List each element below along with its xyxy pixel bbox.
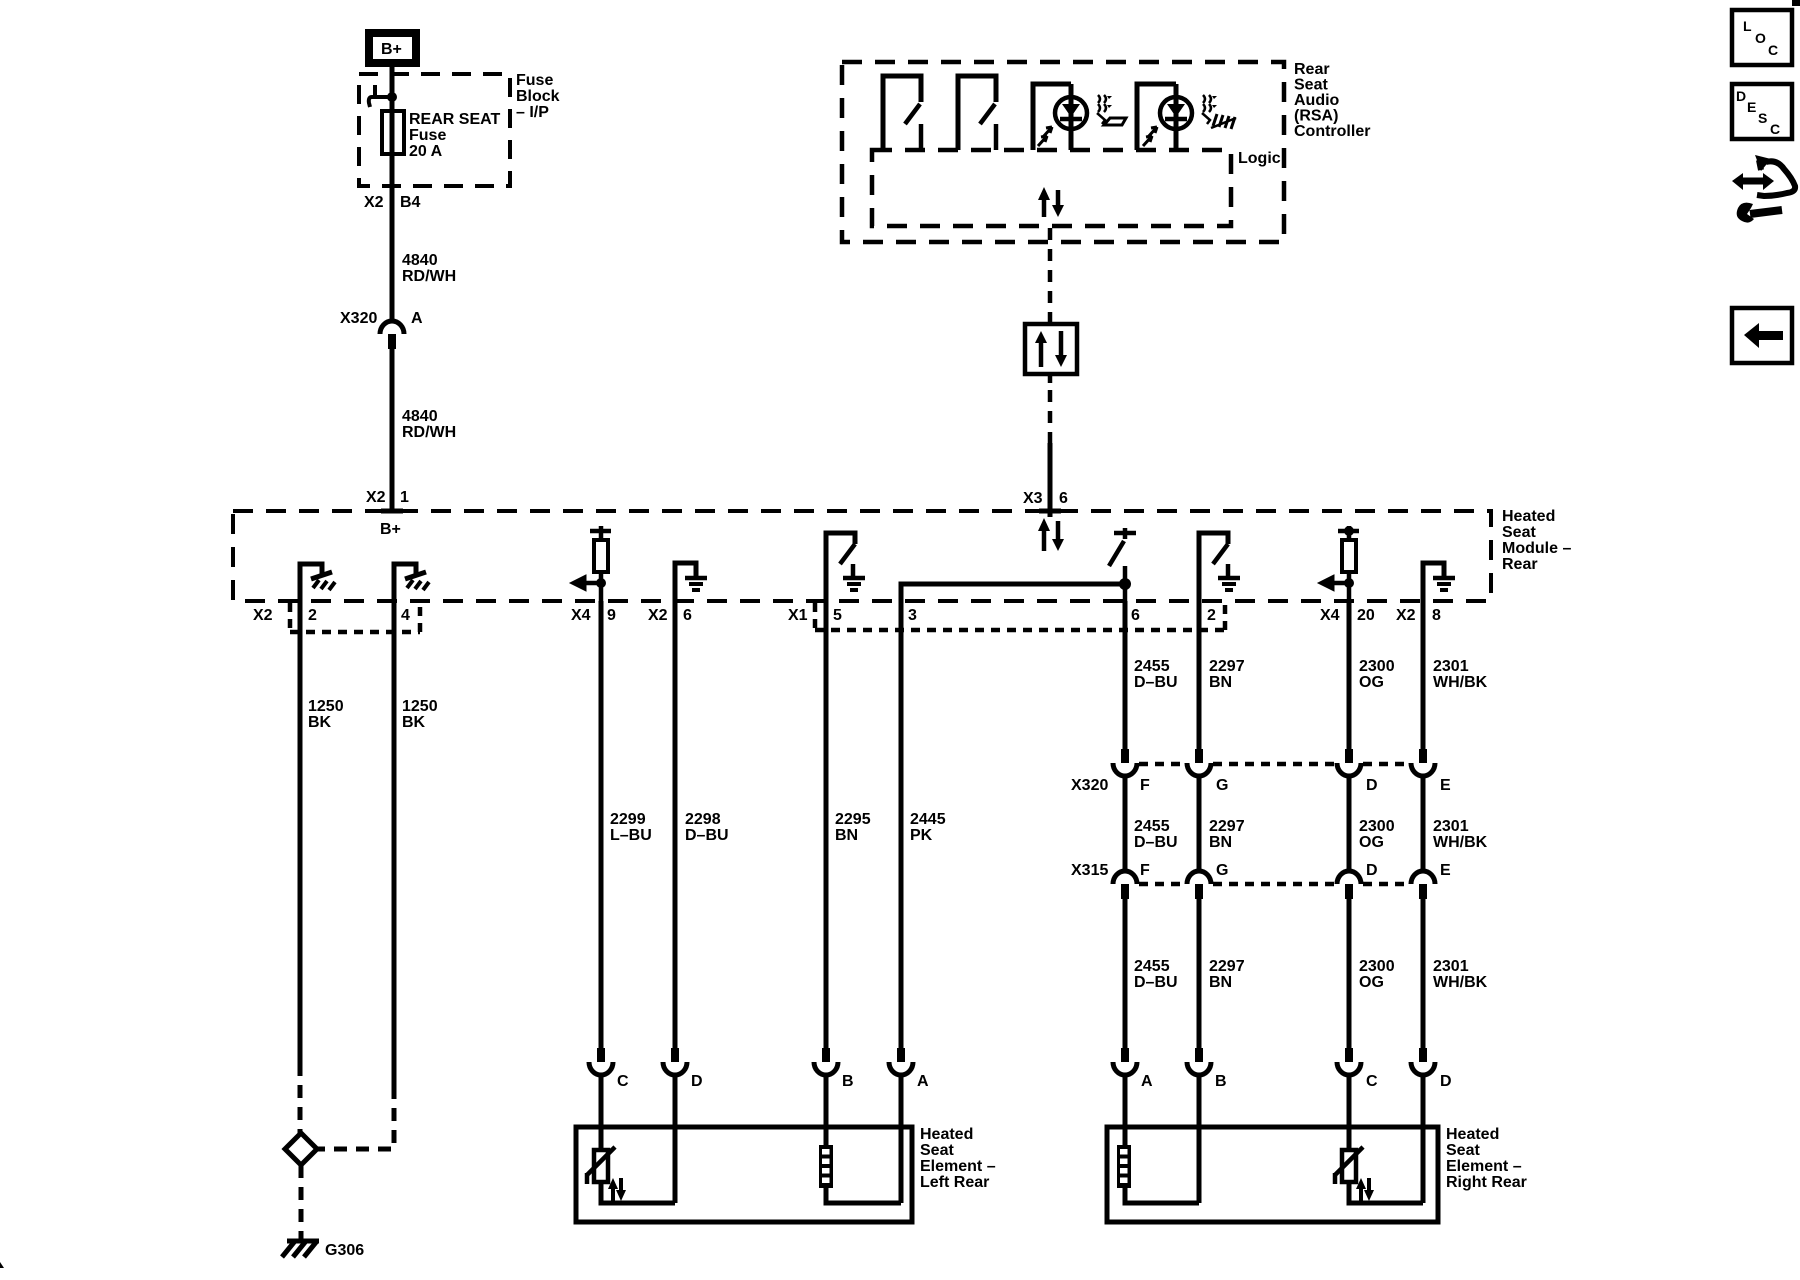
module switch at pin 6 <box>1109 528 1136 601</box>
svg-text:– I/P: – I/P <box>516 104 549 121</box>
svg-text:D–BU: D–BU <box>1134 974 1178 991</box>
svg-text:Fuse: Fuse <box>409 127 446 144</box>
svg-text:RD/WH: RD/WH <box>402 424 456 441</box>
svg-text:D: D <box>691 1073 703 1090</box>
connector X315 pin D <box>1337 862 1378 899</box>
RSA logic box <box>872 150 1281 226</box>
wire 2295 BN pin X1 5 to B <box>826 601 871 1048</box>
svg-text:WH/BK: WH/BK <box>1433 974 1488 991</box>
RSA heated seat icon 2 <box>1202 95 1236 129</box>
wire D into left element <box>673 1075 678 1203</box>
module pin labels row <box>253 607 1441 624</box>
left element connector pin A <box>889 1048 929 1090</box>
svg-text:2300: 2300 <box>1359 818 1395 835</box>
wire 2455 D-BU pin 6 to X320 F <box>1125 601 1178 749</box>
fuse REAR SEAT 20 A <box>382 97 500 186</box>
wire B+ to fuse block <box>390 67 395 100</box>
wire splice to ground <box>299 1165 304 1239</box>
svg-text:1250: 1250 <box>308 698 344 715</box>
svg-text:2297: 2297 <box>1209 658 1245 675</box>
connector X315 pin F <box>1113 862 1150 899</box>
RSA LED1 indicator <box>1033 84 1087 150</box>
svg-text:6: 6 <box>1131 607 1140 624</box>
wire 2300 OG pin X4 20 to X320 D <box>1349 601 1395 749</box>
svg-text:Element –: Element – <box>1446 1158 1522 1175</box>
connector X320 pin E <box>1411 749 1451 794</box>
svg-text:Element –: Element – <box>920 1158 996 1175</box>
svg-text:1: 1 <box>400 489 409 506</box>
svg-text:BN: BN <box>835 827 858 844</box>
svg-text:Seat: Seat <box>1502 524 1536 541</box>
svg-text:D: D <box>1366 777 1378 794</box>
svg-text:OG: OG <box>1359 974 1384 991</box>
module connector dotted box pins 2 4 <box>290 603 420 632</box>
icon button DESC <box>1732 84 1792 139</box>
module serial arrows below X3 6 <box>1038 518 1064 551</box>
wire 2445 PK pin 3 to A <box>901 601 946 1048</box>
module resistor at pin X4 20 <box>1318 526 1359 601</box>
svg-text:C: C <box>1770 121 1780 137</box>
svg-text:2297: 2297 <box>1209 818 1245 835</box>
wire 2297 BN X320 G to X315 G <box>1199 776 1245 871</box>
wire 2299 L-BU pin X4 9 to C <box>601 601 652 1048</box>
module chassis ground pin 4 <box>394 564 429 601</box>
svg-text:Rear: Rear <box>1502 556 1538 573</box>
module switch at pin X1 5 <box>826 533 865 601</box>
wire 2300 OG X315 D to element C <box>1349 899 1395 1048</box>
svg-text:Logic: Logic <box>1238 150 1281 167</box>
svg-text:2300: 2300 <box>1359 658 1395 675</box>
svg-text:BN: BN <box>1209 974 1232 991</box>
module switch at pin 2 <box>1199 533 1240 601</box>
splice diamond <box>285 1133 317 1165</box>
svg-text:B: B <box>842 1073 854 1090</box>
svg-text:2455: 2455 <box>1134 818 1170 835</box>
svg-text:BN: BN <box>1209 674 1232 691</box>
wire C into right element <box>1347 1075 1352 1150</box>
svg-text:Seat: Seat <box>1294 77 1328 94</box>
module ground at pin X2 8 <box>1423 563 1455 601</box>
svg-text:A: A <box>1141 1073 1153 1090</box>
svg-text:Seat: Seat <box>1446 1142 1480 1159</box>
page mark bottom left <box>0 1262 4 1268</box>
svg-text:REAR SEAT: REAR SEAT <box>409 111 500 128</box>
wire 1250 BK left <box>300 601 344 1134</box>
svg-text:X3: X3 <box>1023 490 1043 507</box>
svg-text:G: G <box>1216 777 1228 794</box>
wire 2455 D-BU X320 F to X315 F <box>1125 776 1178 871</box>
wire D into right element <box>1421 1075 1426 1203</box>
svg-text:S: S <box>1758 110 1767 126</box>
svg-text:WH/BK: WH/BK <box>1433 674 1488 691</box>
svg-text:9: 9 <box>607 607 616 624</box>
svg-text:BN: BN <box>1209 834 1232 851</box>
fuse block - I/P box <box>359 74 510 186</box>
RSA LED2 indicator <box>1137 84 1192 150</box>
svg-text:G: G <box>1216 862 1228 879</box>
wire 2298 D-BU pin X2 6 to D <box>675 601 729 1048</box>
module chassis ground pin 2 <box>300 564 335 601</box>
connector X320 pin F <box>1113 749 1150 794</box>
svg-text:F: F <box>1140 862 1150 879</box>
svg-text:2301: 2301 <box>1433 658 1469 675</box>
wire 4840 RD/WH lower <box>392 349 456 512</box>
heated seat element left rear box <box>576 1126 996 1222</box>
RSA switch S1 <box>883 76 921 150</box>
svg-text:O: O <box>1755 30 1766 46</box>
wire 4840 RD/WH upper <box>392 186 456 323</box>
pin X3 6 of module <box>1023 480 1068 517</box>
svg-text:Left Rear: Left Rear <box>920 1174 989 1191</box>
svg-text:C: C <box>1768 42 1778 58</box>
svg-text:Heated: Heated <box>920 1126 973 1143</box>
svg-text:D: D <box>1366 862 1378 879</box>
svg-text:2: 2 <box>1207 607 1216 624</box>
wire B into right element <box>1197 1075 1202 1203</box>
svg-text:B4: B4 <box>400 194 421 211</box>
svg-text:2299: 2299 <box>610 811 646 828</box>
svg-text:Controller: Controller <box>1294 123 1370 140</box>
wire 2455 D-BU X315 F to element A <box>1125 899 1178 1048</box>
svg-text:X2: X2 <box>1396 607 1416 624</box>
svg-text:D: D <box>1440 1073 1452 1090</box>
wire 1250 BK right <box>318 601 438 1149</box>
svg-text:4: 4 <box>401 607 410 624</box>
svg-text:X1: X1 <box>788 607 808 624</box>
svg-text:2298: 2298 <box>685 811 721 828</box>
svg-text:BK: BK <box>402 714 426 731</box>
right element heater <box>1117 1145 1131 1188</box>
svg-text:WH/BK: WH/BK <box>1433 834 1488 851</box>
right element thermistor bottom wire <box>1349 1184 1423 1203</box>
svg-text:1250: 1250 <box>402 698 438 715</box>
svg-text:8: 8 <box>1432 607 1441 624</box>
svg-text:X4: X4 <box>571 607 591 624</box>
svg-text:C: C <box>617 1073 629 1090</box>
svg-text:Heated: Heated <box>1502 508 1555 525</box>
module resistor at pin X4 9 <box>570 526 611 601</box>
svg-text:Right Rear: Right Rear <box>1446 1174 1527 1191</box>
left element connector pin D <box>663 1048 703 1090</box>
svg-text:2300: 2300 <box>1359 958 1395 975</box>
serial data symbol box <box>1025 324 1077 374</box>
wire 2300 OG X320 D to X315 D <box>1349 776 1395 871</box>
svg-text:E: E <box>1440 862 1451 879</box>
svg-text:2: 2 <box>308 607 317 624</box>
wire A into right element <box>1123 1075 1128 1146</box>
svg-text:6: 6 <box>683 607 692 624</box>
pin labels X2 B4 <box>364 194 421 211</box>
right element heater bottom wire <box>1125 1188 1199 1203</box>
svg-text:2297: 2297 <box>1209 958 1245 975</box>
RSA heated seat icon 1 <box>1097 95 1126 125</box>
svg-text:BK: BK <box>308 714 332 731</box>
right element connector pin C <box>1337 1048 1378 1090</box>
svg-text:X2: X2 <box>253 607 273 624</box>
wire C into left element <box>599 1075 604 1150</box>
svg-text:X2: X2 <box>364 194 384 211</box>
svg-text:Module –: Module – <box>1502 540 1571 557</box>
svg-text:C: C <box>1366 1073 1378 1090</box>
svg-text:OG: OG <box>1359 674 1384 691</box>
right element connector pin D <box>1411 1048 1452 1090</box>
left element thermistor <box>587 1147 626 1201</box>
heated seat module - rear box <box>233 508 1571 601</box>
svg-text:X320: X320 <box>1071 777 1108 794</box>
svg-text:20: 20 <box>1357 607 1375 624</box>
left element heater bottom wire <box>826 1188 901 1203</box>
svg-text:L: L <box>1743 18 1752 34</box>
svg-text:3: 3 <box>908 607 917 624</box>
wire 2301 WH/BK X315 E to element D <box>1423 899 1488 1048</box>
left element connector pin C <box>589 1048 629 1090</box>
svg-text:Block: Block <box>516 88 560 105</box>
svg-text:5: 5 <box>833 607 842 624</box>
svg-text:Rear: Rear <box>1294 61 1330 78</box>
svg-text:F: F <box>1140 777 1150 794</box>
svg-text:B+: B+ <box>381 41 402 58</box>
svg-text:D–BU: D–BU <box>685 827 729 844</box>
svg-text:PK: PK <box>910 827 933 844</box>
right element connector pin B <box>1187 1048 1227 1090</box>
svg-text:X4: X4 <box>1320 607 1340 624</box>
left element thermistor bottom wire <box>601 1184 675 1203</box>
wire A into left element <box>899 1075 904 1203</box>
svg-text:4840: 4840 <box>402 408 438 425</box>
RSA switch S2 <box>958 76 996 150</box>
svg-text:D–BU: D–BU <box>1134 674 1178 691</box>
svg-text:Seat: Seat <box>920 1142 954 1159</box>
connector X315 pin G <box>1187 862 1228 899</box>
icon wrench with arrows <box>1732 155 1795 223</box>
svg-text:20 A: 20 A <box>409 143 443 160</box>
module ground at pin X2 6 <box>675 563 707 601</box>
right element thermistor <box>1335 1147 1374 1201</box>
connector X320 pin A <box>340 310 423 349</box>
pin X2 1 of module <box>366 489 409 538</box>
svg-text:2301: 2301 <box>1433 818 1469 835</box>
svg-text:X315: X315 <box>1071 862 1108 879</box>
svg-text:Audio: Audio <box>1294 92 1340 109</box>
wire 2297 BN X315 G to element B <box>1199 899 1245 1048</box>
RSA logic serial arrows <box>1038 187 1064 217</box>
ground G306 <box>282 1241 364 1259</box>
svg-text:L–BU: L–BU <box>610 827 652 844</box>
svg-text:2445: 2445 <box>910 811 946 828</box>
svg-text:2455: 2455 <box>1134 958 1170 975</box>
svg-text:G306: G306 <box>325 1242 364 1259</box>
module wire pin 3 to switch junction <box>901 584 1125 601</box>
connector X320 pin D <box>1337 749 1378 794</box>
svg-text:OG: OG <box>1359 834 1384 851</box>
svg-text:B: B <box>1215 1073 1227 1090</box>
svg-text:A: A <box>411 310 423 327</box>
wire 2297 BN pin 2 to X320 G <box>1199 601 1245 749</box>
wire B into left element <box>824 1075 829 1146</box>
svg-text:A: A <box>917 1073 929 1090</box>
svg-text:D: D <box>1736 88 1746 104</box>
serial data line to module <box>1048 228 1053 512</box>
fuse block name label <box>516 72 560 121</box>
svg-text:D–BU: D–BU <box>1134 834 1178 851</box>
module connector dotted box pins 5 3 6 2 <box>815 603 1225 630</box>
icon button back arrow <box>1732 308 1792 363</box>
icon button LOC <box>1732 10 1792 65</box>
svg-text:X320: X320 <box>340 310 377 327</box>
wire 2301 WH/BK X320 E to X315 E <box>1423 776 1488 871</box>
connector X315 dotted line <box>1139 882 1409 887</box>
connector X320 dotted line <box>1139 762 1409 767</box>
wire 2301 WH/BK pin X2 8 to X320 E <box>1423 601 1488 749</box>
RSA controller box <box>842 61 1370 242</box>
connector X320 pin G <box>1187 749 1228 794</box>
svg-text:(RSA): (RSA) <box>1294 108 1338 125</box>
svg-text:2295: 2295 <box>835 811 871 828</box>
svg-text:E: E <box>1440 777 1451 794</box>
svg-text:X2: X2 <box>648 607 668 624</box>
svg-text:6: 6 <box>1059 490 1068 507</box>
svg-text:E: E <box>1747 99 1756 115</box>
left element connector pin B <box>814 1048 854 1090</box>
svg-text:4840: 4840 <box>402 252 438 269</box>
power symbol B+ <box>369 33 416 63</box>
left element heater <box>819 1145 833 1188</box>
svg-text:X2: X2 <box>366 489 386 506</box>
svg-text:2301: 2301 <box>1433 958 1469 975</box>
heated seat element right rear box <box>1107 1126 1527 1222</box>
svg-text:RD/WH: RD/WH <box>402 268 456 285</box>
right element connector pin A <box>1113 1048 1153 1090</box>
fuse block bus bar <box>369 85 397 107</box>
svg-text:Heated: Heated <box>1446 1126 1499 1143</box>
svg-text:Fuse: Fuse <box>516 72 553 89</box>
svg-text:B+: B+ <box>380 521 401 538</box>
page corner mark top right <box>1792 0 1800 6</box>
svg-text:2455: 2455 <box>1134 658 1170 675</box>
connector X315 pin E <box>1411 862 1451 899</box>
